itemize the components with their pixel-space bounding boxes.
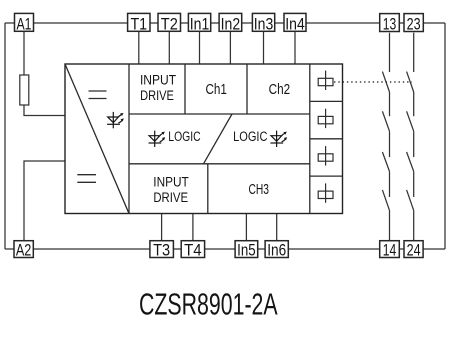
- LED D3 in right logic cell: [270, 131, 287, 147]
- wire T1 stub: [138, 31, 140, 64]
- svg-text:In3: In3: [254, 14, 274, 33]
- wire A1 to resistor R1: [23, 31, 25, 75]
- svg-text:INPUT: INPUT: [140, 73, 176, 88]
- wire In3 stub: [263, 31, 265, 64]
- terminal T4: [181, 240, 204, 259]
- wire In4 stub: [294, 31, 296, 64]
- svg-text:13: 13: [383, 14, 397, 33]
- svg-text:DRIVE: DRIVE: [140, 88, 174, 103]
- svg-text:A1: A1: [17, 14, 32, 33]
- contact blade 2 (23-24): [407, 111, 414, 131]
- divider under top row: [129, 113, 310, 115]
- wire In2 stub: [229, 31, 231, 64]
- svg-text:In1: In1: [190, 14, 210, 33]
- wire T3 stub: [161, 214, 163, 241]
- terminal 23: [404, 14, 423, 34]
- relay coil K1: [318, 71, 333, 90]
- relay coil K4: [318, 183, 333, 202]
- svg-text:Ch2: Ch2: [269, 82, 291, 98]
- svg-text:Ch1: Ch1: [205, 82, 227, 98]
- svg-text:CZSR8901-2A: CZSR8901-2A: [139, 288, 278, 322]
- svg-text:T2: T2: [161, 14, 178, 33]
- contact blade 1 (23-24): [407, 72, 414, 92]
- wire In6 stub: [276, 214, 278, 241]
- svg-text:24: 24: [407, 240, 421, 259]
- svg-text:In6: In6: [267, 240, 286, 259]
- wire T4 stub: [192, 214, 194, 241]
- terminal A2: [14, 240, 33, 259]
- resistor R1: [20, 75, 29, 105]
- wire In1 stub: [199, 31, 201, 64]
- relay cell divider 2: [310, 138, 343, 140]
- terminal T2: [158, 13, 181, 33]
- terminal In1: [188, 13, 210, 33]
- dotted actuation link K1 to contacts: [334, 81, 412, 83]
- LED D1 in converter: [107, 112, 124, 128]
- terminal 13: [380, 14, 400, 34]
- terminal T3: [150, 240, 174, 259]
- terminal In3: [252, 13, 274, 33]
- wire bottom bus A2-T3-T4-In5-In6-14-24: [5, 248, 445, 250]
- contact blade 3 (23-24): [407, 152, 414, 171]
- wire converter return to A2: [24, 161, 65, 241]
- wire left side A1 to A2: [4, 23, 6, 249]
- svg-text:LOGIC: LOGIC: [233, 129, 267, 144]
- terminal 24: [404, 240, 423, 259]
- converter DC symbol bottom: [77, 175, 96, 183]
- relay coil K3: [318, 146, 333, 165]
- contact blade 4 (23-24): [407, 190, 414, 211]
- module outline: [65, 64, 343, 214]
- contact chain 23-24: [413, 33, 415, 241]
- wire T2 stub: [168, 31, 170, 64]
- label INPUT DRIVE bottom: [153, 175, 188, 205]
- label INPUT DRIVE top: [140, 73, 176, 103]
- svg-text:In2: In2: [221, 14, 241, 33]
- logic cells diagonal divider: [204, 114, 233, 164]
- terminal In5: [235, 240, 258, 259]
- wire right side 23 to 24: [444, 23, 446, 249]
- svg-text:CH3: CH3: [248, 182, 269, 198]
- terminal In4: [284, 13, 306, 33]
- svg-text:LOGIC: LOGIC: [168, 129, 201, 144]
- relay column left edge: [309, 64, 311, 214]
- contact blade 3 (13-14): [382, 152, 389, 171]
- svg-text:INPUT: INPUT: [153, 175, 188, 190]
- converter U1 right edge: [128, 64, 130, 214]
- relay cell divider 3: [310, 175, 343, 177]
- divider INPUT DRIVE / CH3: [207, 164, 209, 214]
- relay coil K2: [318, 109, 333, 128]
- contact chain 13-14: [389, 33, 391, 241]
- svg-text:A2: A2: [16, 240, 32, 259]
- svg-text:In4: In4: [285, 14, 305, 33]
- terminal In2: [219, 13, 242, 33]
- svg-text:DRIVE: DRIVE: [153, 190, 188, 205]
- converter DC symbol top: [89, 91, 107, 99]
- contact blade 4 (13-14): [382, 190, 389, 211]
- LED D2 in left logic cell: [149, 131, 166, 147]
- terminal T1: [128, 13, 150, 33]
- svg-text:T4: T4: [184, 240, 202, 259]
- wire resistor to converter input: [24, 105, 65, 116]
- terminal 14: [380, 240, 400, 259]
- svg-text:23: 23: [407, 14, 421, 33]
- svg-text:In5: In5: [237, 240, 256, 259]
- wire In5 stub: [245, 214, 247, 241]
- svg-text:T3: T3: [153, 240, 170, 259]
- relay cell divider 1: [310, 100, 343, 102]
- divider INPUT DRIVE / Ch1: [184, 64, 186, 114]
- svg-text:T1: T1: [130, 14, 147, 33]
- contact blade 2 (13-14): [382, 111, 389, 131]
- divider Ch1 / Ch2: [246, 64, 248, 114]
- wire top bus A1-T1-T2-In1-In2-In3-In4-13-23: [5, 22, 445, 24]
- divider above bottom row: [129, 163, 310, 165]
- terminal A1: [15, 13, 34, 33]
- svg-text:14: 14: [383, 240, 397, 259]
- contact blade 1 (13-14): [382, 72, 389, 92]
- terminal In6: [265, 240, 288, 259]
- converter U1 diagonal: [65, 64, 129, 214]
